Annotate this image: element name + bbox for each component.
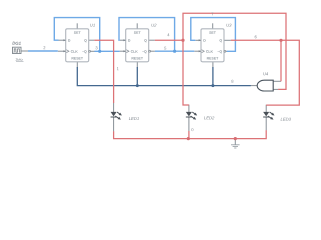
svg-text:RESET: RESET (131, 56, 144, 60)
svg-text:~Q: ~Q (142, 50, 147, 54)
svg-text:Q: Q (219, 39, 222, 43)
svg-text:DG1: DG1 (12, 41, 21, 46)
svg-text:RESET: RESET (207, 56, 220, 60)
svg-text:6: 6 (254, 34, 257, 39)
svg-text:LED1: LED1 (129, 116, 140, 121)
svg-text:LED3: LED3 (280, 117, 291, 122)
svg-text:U4: U4 (263, 71, 269, 76)
svg-text:4: 4 (167, 32, 170, 37)
svg-text:CLK: CLK (71, 50, 79, 54)
svg-text:8: 8 (231, 79, 234, 84)
svg-text:2: 2 (43, 45, 46, 50)
svg-text:U1: U1 (90, 23, 95, 28)
svg-text:SET: SET (209, 31, 217, 35)
svg-text:0: 0 (191, 127, 194, 132)
svg-text:3: 3 (95, 45, 98, 50)
svg-text:~Q: ~Q (217, 50, 222, 54)
svg-text:Q: Q (84, 39, 87, 43)
svg-text:RESET: RESET (71, 56, 84, 60)
svg-text:1kHz: 1kHz (15, 58, 23, 62)
svg-text:U3: U3 (226, 23, 232, 28)
svg-text:CLK: CLK (206, 50, 214, 54)
svg-text:5: 5 (164, 46, 167, 51)
svg-text:Q: Q (144, 39, 147, 43)
svg-text:~Q: ~Q (82, 50, 87, 54)
svg-text:LED2: LED2 (204, 115, 215, 120)
svg-text:SET: SET (134, 31, 142, 35)
svg-text:1: 1 (117, 66, 120, 71)
svg-text:U2: U2 (151, 23, 157, 28)
svg-text:CLK: CLK (131, 50, 139, 54)
svg-text:SET: SET (74, 31, 82, 35)
